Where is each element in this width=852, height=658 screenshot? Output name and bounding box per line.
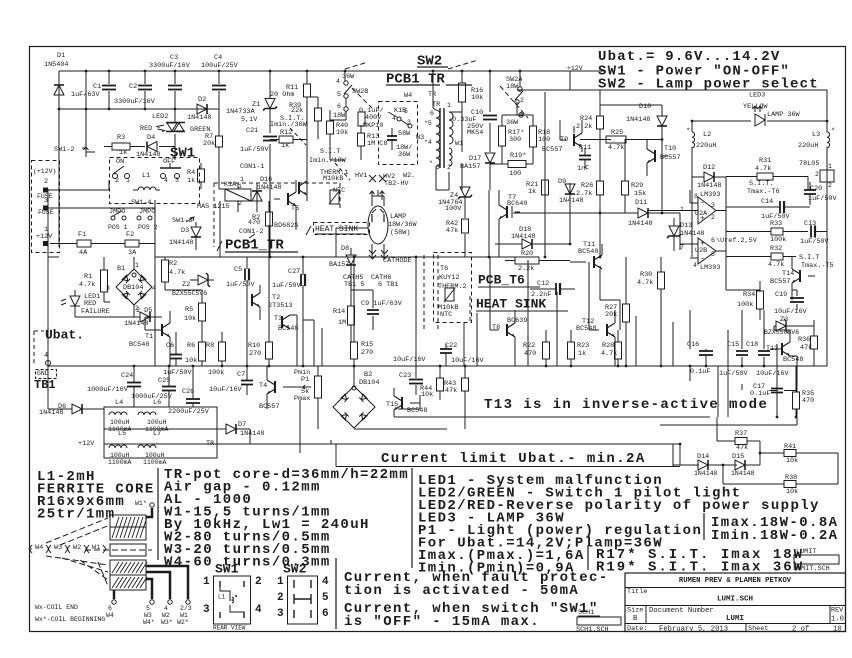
title block date — [627, 625, 842, 633]
resistor R26 — [576, 181, 604, 198]
svg-text:2: 2 — [115, 177, 119, 184]
diode D18 — [511, 226, 535, 249]
dashed box gnd — [36, 370, 57, 379]
svg-text:47k: 47k — [800, 344, 812, 352]
svg-text:*5: *5 — [424, 120, 432, 127]
svg-text:220uH: 220uH — [696, 142, 716, 150]
svg-text:Tmax.-T6: Tmax.-T6 — [747, 188, 780, 196]
capacitor C20 — [804, 182, 837, 205]
svg-text:470: 470 — [248, 219, 260, 227]
svg-text:15k: 15k — [634, 190, 646, 198]
info current2a — [344, 601, 599, 617]
svg-text:Imin.18W-0.2A: Imin.18W-0.2A — [711, 528, 838, 544]
svg-text:Wx*-COIL BEGINNING: Wx*-COIL BEGINNING — [35, 616, 105, 623]
dashed box +12V fuse — [32, 161, 60, 253]
capacitor C17 — [750, 383, 783, 398]
resistor R19 — [508, 152, 526, 178]
svg-text:MKS4: MKS4 — [467, 129, 483, 137]
svg-text:Current limit Ubat.- min.2A: Current limit Ubat.- min.2A — [381, 451, 646, 467]
svg-text:C4: C4 — [214, 54, 222, 62]
resistor R31 — [726, 157, 808, 190]
svg-text:1N4148: 1N4148 — [628, 220, 652, 228]
svg-text:3: 3 — [711, 202, 715, 209]
svg-text:100uH: 100uH — [145, 452, 165, 459]
title block author — [679, 577, 792, 585]
transistor T5 — [274, 180, 307, 230]
svg-text:78L05: 78L05 — [799, 160, 819, 168]
svg-text:3: 3 — [44, 197, 48, 205]
resistor R1 — [79, 257, 108, 302]
svg-text:(58W): (58W) — [390, 229, 410, 237]
svg-text:S.I.T.: S.I.T. — [749, 180, 773, 188]
dashed line SW2 left — [345, 62, 368, 69]
svg-text:C6: C6 — [166, 342, 174, 350]
inductor L1 — [133, 172, 160, 190]
svg-text:DB104: DB104 — [123, 284, 143, 292]
svg-text:1N4148: 1N4148 — [626, 116, 650, 124]
transistor T13 — [766, 330, 803, 366]
svg-text:Imin./18W: Imin./18W — [309, 157, 347, 165]
svg-text:CON1-1: CON1-1 — [240, 163, 264, 171]
svg-text:TR: TR — [206, 440, 214, 448]
resistor R25 — [606, 129, 626, 152]
zener Z1 — [226, 99, 277, 125]
svg-text:ON: ON — [116, 158, 124, 166]
svg-text:1N4148: 1N4148 — [697, 182, 721, 190]
svg-text:TB1 5: TB1 5 — [344, 281, 364, 289]
label PCB_T6 — [478, 273, 540, 288]
svg-text:2 of: 2 of — [792, 625, 809, 633]
svg-text:LUMIT.SCH: LUMIT.SCH — [793, 565, 830, 573]
svg-text:36W: 36W — [342, 73, 355, 81]
resistor R29 — [622, 181, 647, 213]
svg-text:R5: R5 — [185, 306, 193, 314]
capacitor C26 — [168, 388, 210, 416]
svg-text:BC557: BC557 — [770, 278, 790, 286]
svg-text:SW1: SW1 — [215, 562, 239, 577]
svg-text:R1: R1 — [84, 273, 92, 281]
svg-text:1N4148: 1N4148 — [559, 197, 583, 205]
svg-text:KUY12: KUY12 — [439, 274, 459, 282]
svg-text:L4: L4 — [115, 399, 123, 407]
svg-text:HEAT SINK: HEAT SINK — [476, 297, 546, 312]
switch SW2B — [330, 71, 368, 120]
svg-text:R26: R26 — [581, 182, 593, 190]
svg-text:DB104: DB104 — [359, 379, 379, 387]
svg-text:HEAT SINK: HEAT SINK — [315, 225, 358, 234]
connector SW1 — [203, 562, 262, 632]
diode D5 — [124, 307, 162, 328]
svg-text:W1*: W1* — [135, 500, 147, 507]
svg-text:Wx-COIL END: Wx-COIL END — [35, 604, 78, 611]
svg-text:SW1-2: SW1-2 — [54, 146, 74, 154]
labels SIT18 — [309, 148, 347, 165]
svg-text:LED3: LED3 — [749, 92, 765, 100]
svg-text:22k: 22k — [291, 107, 303, 115]
wire lamp area — [303, 228, 373, 290]
dashed line SW2 right — [448, 60, 478, 69]
svg-text:5: 5 — [322, 592, 329, 604]
svg-text:1: 1 — [447, 102, 451, 109]
svg-text:R24: R24 — [580, 115, 592, 123]
info w4 — [164, 554, 331, 570]
svg-text:C14: C14 — [761, 198, 773, 206]
svg-text:1k: 1k — [281, 142, 289, 150]
svg-text:D3: D3 — [181, 227, 189, 235]
info r17 — [596, 547, 804, 563]
svg-text:1000uF/16V: 1000uF/16V — [87, 386, 129, 394]
info w3 — [164, 542, 331, 558]
svg-text:*: * — [429, 160, 433, 167]
svg-text:10k: 10k — [336, 129, 348, 137]
svg-text:1100mA: 1100mA — [108, 459, 132, 466]
svg-text:4.7k: 4.7k — [755, 165, 771, 173]
svg-text:HV1: HV1 — [355, 172, 367, 180]
svg-text:1M: 1M — [338, 319, 346, 327]
svg-text:W3: W3 — [54, 544, 62, 552]
svg-text:U2A: U2A — [695, 210, 708, 218]
svg-text:BC548: BC548 — [578, 248, 598, 256]
link LUMIT — [793, 548, 839, 573]
capacitor C2 — [114, 83, 156, 106]
svg-text:TR: TR — [428, 91, 436, 99]
regulator U1 — [799, 147, 834, 189]
resistor R8 — [206, 342, 226, 377]
connector SW2 — [277, 562, 329, 624]
labels SIT T6 — [747, 180, 780, 196]
svg-text:5: 5 — [337, 91, 341, 98]
svg-text:W2: W2 — [73, 544, 81, 552]
resistor R35 — [793, 390, 815, 409]
svg-text:F2: F2 — [126, 231, 134, 239]
dashed box PCB1_TR relay — [214, 183, 340, 247]
diode D11 — [628, 199, 652, 228]
svg-text:LAMP: LAMP — [390, 213, 406, 221]
svg-text:1uF/50V: 1uF/50V — [719, 370, 748, 378]
info p1 — [418, 523, 702, 539]
svg-text:36W: 36W — [506, 119, 519, 127]
transistor T3 — [274, 315, 298, 333]
svg-text:400V: 400V — [365, 114, 382, 122]
resistor R20 — [505, 250, 570, 273]
svg-text:100k: 100k — [737, 301, 753, 309]
svg-text:D10: D10 — [639, 103, 651, 111]
resistor R27 — [605, 304, 630, 322]
resistor R5 — [184, 290, 206, 332]
svg-text:JMPO: JMPO — [109, 208, 125, 216]
svg-text:R41: R41 — [784, 443, 796, 451]
label PCB1_TR mid — [217, 237, 298, 253]
resistor R18 — [502, 102, 550, 147]
svg-text:C26: C26 — [182, 388, 194, 396]
capacitor C11 — [577, 144, 591, 173]
label HEAT SINK big — [476, 297, 568, 312]
svg-text:F1: F1 — [78, 231, 86, 239]
zener Z2 — [172, 273, 214, 297]
svg-text:3: 3 — [203, 604, 210, 616]
node +12V box — [33, 168, 56, 211]
svg-text:4: 4 — [44, 352, 48, 360]
svg-text:K1A: K1A — [224, 181, 237, 189]
svg-text:1k: 1k — [578, 350, 586, 358]
resistor R17 — [499, 115, 525, 164]
svg-text:C19: C19 — [775, 291, 787, 299]
label HEAT SINK small — [306, 225, 366, 235]
inductor L4 — [108, 399, 132, 433]
svg-text:THERM.2: THERM.2 — [438, 283, 467, 291]
info airgap — [164, 479, 321, 495]
svg-text:C5: C5 — [234, 266, 242, 274]
svg-text:2: 2 — [447, 164, 451, 171]
label current limit — [381, 451, 646, 467]
resistor R12 — [279, 129, 293, 150]
svg-text:C7: C7 — [237, 371, 245, 379]
svg-text:6: 6 — [108, 605, 112, 612]
labels THERM1 — [320, 169, 349, 204]
resistor R28 — [601, 342, 622, 359]
zener Z3 — [764, 316, 814, 336]
capacitor C18 — [746, 341, 790, 378]
svg-text:T6: T6 — [440, 265, 448, 273]
capacitor C23 — [393, 342, 427, 395]
svg-text:100: 100 — [538, 136, 550, 144]
svg-text:POS 2: POS 2 — [138, 224, 158, 231]
svg-text:Pmax: Pmax — [294, 395, 310, 403]
svg-text:2: 2 — [44, 178, 48, 186]
svg-text:is "OFF" - 15mA max.: is "OFF" - 15mA max. — [344, 614, 540, 630]
svg-text:R15: R15 — [361, 341, 373, 349]
relay contact K1B — [388, 107, 412, 128]
svg-text:LM393: LM393 — [700, 264, 720, 272]
svg-text:-: - — [700, 198, 705, 207]
info current1b — [344, 583, 579, 599]
svg-text:470: 470 — [524, 350, 536, 358]
transistor T14 — [770, 257, 815, 300]
transistor T1 — [129, 311, 170, 366]
svg-text:47k: 47k — [446, 227, 458, 235]
capacitor C8 — [387, 128, 397, 150]
svg-text:W4: W4 — [106, 612, 114, 619]
svg-text:R22: R22 — [523, 342, 535, 350]
svg-text:L6: L6 — [153, 399, 161, 407]
svg-text:1N5404: 1N5404 — [44, 61, 68, 69]
svg-text:+12V: +12V — [567, 65, 583, 72]
svg-text:4.7k: 4.7k — [169, 269, 185, 277]
info imin18 — [711, 528, 838, 544]
info current2b — [344, 614, 540, 630]
svg-text:\Uref.2,5V: \Uref.2,5V — [716, 237, 758, 245]
resistor R13 — [358, 125, 388, 160]
svg-text:C27: C27 — [288, 268, 300, 276]
divider col1 — [157, 468, 159, 560]
svg-text:D16: D16 — [260, 176, 272, 184]
svg-text:T3: T3 — [274, 315, 282, 323]
svg-text:T13 is in inverse-active mode: T13 is in inverse-active mode — [484, 397, 768, 413]
resistor R44 — [420, 378, 444, 399]
svg-text:100uH: 100uH — [110, 419, 130, 426]
svg-text:T15: T15 — [386, 401, 398, 409]
svg-text:-: - — [700, 254, 705, 263]
svg-text:3A: 3A — [128, 249, 137, 257]
svg-text:Z2: Z2 — [182, 281, 190, 289]
svg-text:2200uF/25V: 2200uF/25V — [168, 408, 210, 416]
resistor R6 — [185, 342, 206, 365]
svg-text:T5: T5 — [291, 205, 299, 213]
resistor R16 — [459, 83, 484, 102]
svg-text:W3*: W3* — [161, 619, 173, 626]
capacitor C21 — [240, 127, 277, 154]
link SCH1 — [576, 609, 621, 634]
svg-text:6: 6 — [430, 110, 434, 117]
dashed line SW2B link — [352, 88, 372, 108]
svg-text:U2B: U2B — [695, 247, 707, 255]
svg-text:T14: T14 — [782, 270, 794, 278]
svg-text:10k: 10k — [184, 315, 196, 323]
transistor T9 — [542, 120, 582, 154]
svg-text:W2.: W2. — [403, 172, 415, 180]
capacitor C1 — [71, 83, 116, 99]
svg-text:LAMP 36W: LAMP 36W — [767, 111, 801, 119]
legend sw1 — [598, 63, 790, 79]
svg-text:Ubat.: Ubat. — [45, 328, 84, 343]
svg-text:BC557: BC557 — [542, 146, 562, 154]
wire bott — [104, 409, 217, 444]
svg-text:BC640: BC640 — [507, 200, 527, 208]
svg-text:MAS 1215: MAS 1215 — [197, 203, 230, 211]
svg-text:B: B — [633, 615, 638, 623]
svg-text:1: 1 — [135, 262, 139, 269]
svg-text:BC548: BC548 — [129, 341, 149, 349]
svg-text:1N4148: 1N4148 — [240, 430, 264, 438]
resistor R4 — [187, 163, 205, 189]
svg-text:REAR VIEW: REAR VIEW — [213, 624, 246, 631]
svg-text:R4: R4 — [187, 169, 195, 177]
svg-text:8: 8 — [694, 193, 698, 200]
svg-text:W2*: W2* — [177, 619, 189, 626]
svg-text:LED2: LED2 — [152, 113, 168, 121]
info 25tr — [37, 506, 115, 522]
svg-text:4A: 4A — [79, 249, 88, 257]
resistor R15 — [351, 341, 374, 359]
svg-text:L5: L5 — [118, 430, 126, 438]
svg-text:R28: R28 — [602, 342, 614, 350]
svg-text:R14: R14 — [333, 308, 345, 316]
svg-text:L7: L7 — [153, 430, 161, 438]
svg-text:10uF/16V: 10uF/16V — [756, 370, 790, 378]
svg-text:D15: D15 — [732, 453, 744, 461]
svg-text:270: 270 — [249, 350, 261, 358]
label SW1-2 — [54, 146, 89, 157]
transistor T12 — [576, 310, 615, 350]
svg-text:1k: 1k — [119, 149, 127, 157]
diode D15 — [731, 453, 755, 477]
resistor R21 — [526, 180, 549, 196]
svg-text:10uF/16V: 10uF/16V — [393, 356, 427, 364]
svg-text:Tmax.-T5: Tmax.-T5 — [801, 262, 834, 270]
svg-text:POS 1: POS 1 — [108, 224, 128, 231]
op-amp U2A — [648, 190, 726, 224]
svg-text:1k: 1k — [187, 177, 195, 185]
bridge B1 — [106, 262, 156, 312]
svg-text:3: 3 — [106, 285, 110, 292]
svg-text:+12V: +12V — [78, 440, 95, 448]
svg-text:1uF/50V: 1uF/50V — [800, 238, 829, 246]
labels SIT T5 — [799, 254, 834, 270]
svg-text:1: 1 — [240, 176, 244, 183]
diode D3 — [169, 222, 201, 250]
svg-text:W4*: W4* — [143, 619, 155, 626]
svg-text:W4: W4 — [35, 544, 43, 552]
svg-text:10k: 10k — [786, 488, 798, 496]
resistor R37 — [735, 430, 748, 452]
svg-text:100V: 100V — [445, 205, 462, 213]
svg-text:10: 10 — [833, 625, 842, 633]
svg-text:SW2 - Lamp power select: SW2 - Lamp power select — [598, 76, 819, 92]
svg-text:T2: T2 — [272, 294, 280, 302]
info forubat — [418, 535, 663, 551]
transistor T11 — [570, 241, 602, 269]
resistor R41 — [784, 443, 798, 465]
svg-text:1N4733A: 1N4733A — [226, 108, 255, 116]
svg-text:LM393: LM393 — [700, 191, 720, 199]
svg-text:Title: Title — [627, 588, 647, 596]
svg-text:47k: 47k — [736, 444, 748, 452]
svg-text:36W: 36W — [398, 151, 411, 159]
diode D4 — [130, 134, 175, 159]
svg-text:T8: T8 — [492, 324, 500, 332]
diode D8 — [329, 245, 356, 290]
capacitor C4 — [201, 54, 239, 90]
svg-text:C18: C18 — [746, 341, 758, 349]
label SW1 big — [170, 145, 195, 161]
info al — [164, 492, 252, 508]
svg-text:R3: R3 — [117, 134, 125, 142]
svg-text:D14: D14 — [697, 453, 709, 461]
svg-text:1N4148: 1N4148 — [39, 409, 63, 417]
title block title — [627, 588, 753, 604]
svg-text:7: 7 — [680, 244, 684, 251]
svg-text:BD682S: BD682S — [274, 222, 298, 230]
diode D12 — [692, 164, 726, 190]
svg-text:4: 4 — [693, 262, 697, 269]
svg-text:3300uF/16V: 3300uF/16V — [114, 98, 156, 106]
svg-text:470: 470 — [802, 397, 814, 405]
core pins bottom — [112, 600, 190, 604]
svg-text:100uH: 100uH — [147, 419, 167, 426]
resistor R3 — [104, 134, 130, 157]
svg-text:B2: B2 — [364, 371, 372, 379]
svg-text:2 D5: 2 D5 — [136, 307, 152, 315]
info w2 — [164, 529, 331, 545]
svg-text:1M C8: 1M C8 — [367, 140, 387, 148]
capacitor C24 — [87, 372, 141, 394]
svg-text:10uF/16V: 10uF/16V — [209, 386, 243, 394]
svg-text:L1: L1 — [218, 593, 226, 600]
svg-text:4: 4 — [255, 604, 262, 616]
resistor R33 — [726, 220, 808, 244]
svg-text:10uF/16V: 10uF/16V — [451, 357, 485, 365]
svg-text:SW1-3: SW1-3 — [172, 217, 192, 225]
transistor T2 — [252, 285, 292, 320]
resistor R22 — [523, 342, 550, 359]
svg-text:Imin./36W: Imin./36W — [270, 121, 308, 129]
svg-text:10k: 10k — [421, 391, 433, 399]
svg-text:C2: C2 — [129, 83, 137, 91]
inductor L7 — [138, 430, 167, 466]
svg-text:FUSE: FUSE — [38, 209, 54, 216]
svg-text:10k: 10k — [185, 357, 197, 365]
svg-text:5: 5 — [146, 605, 150, 612]
